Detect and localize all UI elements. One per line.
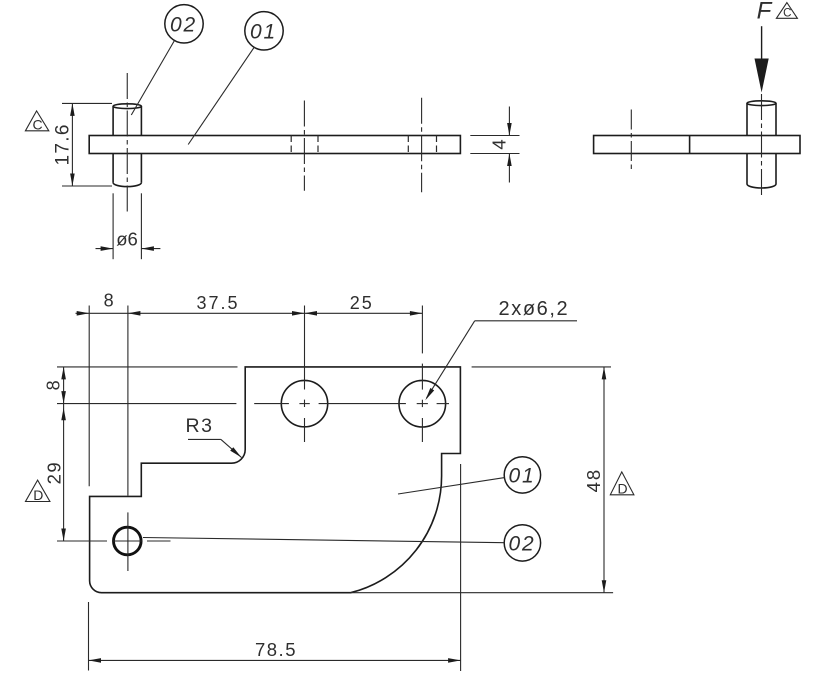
pin centerline (side view) <box>761 94 763 196</box>
dimension diam 6 <box>112 193 114 259</box>
balloon 02 (front view) <box>165 5 203 43</box>
part 02 pin upper body (front view) <box>112 106 114 135</box>
top dimension line 8 / 37.5 / 25 <box>76 312 423 314</box>
left edge extension line <box>88 306 90 487</box>
svg-text:01: 01 <box>509 464 536 487</box>
hidden hole lines right hole (front view) <box>407 136 409 154</box>
svg-text:R3: R3 <box>186 415 214 437</box>
svg-text:F: F <box>757 0 773 25</box>
svg-text:ø6: ø6 <box>116 229 138 250</box>
svg-text:02: 02 <box>509 532 536 555</box>
bottom dimension 78.5 <box>88 602 90 671</box>
leader balloon 02 plan to pin hole <box>143 538 504 543</box>
svg-text:D: D <box>33 487 43 503</box>
hole centerline right (front view) <box>421 98 423 193</box>
svg-text:02: 02 <box>170 14 197 37</box>
leader balloon 01 plan <box>398 478 505 494</box>
svg-text:8: 8 <box>44 380 64 390</box>
hidden hole lines left hole (front view) <box>290 136 292 154</box>
part 02 pin upper body (side view) <box>746 103 748 135</box>
top edge extension line left <box>57 366 238 368</box>
svg-text:C: C <box>32 116 42 132</box>
svg-text:C: C <box>783 8 791 20</box>
hole 2 circle (plan view) <box>399 380 446 427</box>
leader balloon 02 to pin <box>131 41 174 115</box>
hole 1 circle (plan view) <box>281 380 327 426</box>
pin centerline (front view) <box>126 73 128 213</box>
svg-text:25: 25 <box>350 293 374 313</box>
vertical centerline hole 1 / extension <box>304 306 306 390</box>
part 01 plate bar (side view) <box>594 136 800 154</box>
datum triangle D right <box>610 472 634 495</box>
bar centerline (side view) <box>630 110 632 172</box>
svg-text:48: 48 <box>583 468 604 493</box>
svg-text:4: 4 <box>488 139 509 149</box>
edge line in side view bar <box>689 136 691 154</box>
svg-text:78.5: 78.5 <box>255 639 297 660</box>
svg-text:8: 8 <box>104 291 114 311</box>
svg-text:37.5: 37.5 <box>196 293 239 313</box>
right dimension 48 <box>472 366 611 368</box>
horizontal centerline through holes <box>57 403 236 405</box>
part 02 pin lower body (side view) <box>746 154 748 185</box>
datum triangle C at force <box>776 3 797 19</box>
part 02 pin lower body (front view) <box>112 154 114 183</box>
force arrow F <box>761 26 763 62</box>
balloon 01 (front view) <box>245 12 283 50</box>
svg-text:17.6: 17.6 <box>52 123 73 165</box>
part 01 plate outline (plan view) <box>90 367 461 593</box>
pin hole 02 circle thick (plan view) <box>114 527 142 555</box>
left dimension line 8 / 29 <box>63 367 65 541</box>
datum triangle D left <box>26 480 50 501</box>
dimension 17.6 <box>62 102 112 104</box>
hole centerline left (front view) <box>303 101 305 191</box>
vertical centerline pin hole / extension <box>127 306 129 496</box>
horizontal centerline pin hole <box>57 540 107 542</box>
svg-text:D: D <box>617 480 627 496</box>
vertical centerline hole 2 / extension <box>421 306 423 354</box>
part 01 plate bar (front view) <box>89 136 460 154</box>
svg-text:01: 01 <box>250 21 277 44</box>
balloon 01 (plan view) <box>504 457 540 493</box>
svg-text:29: 29 <box>43 461 64 485</box>
balloon 02 (plan view) <box>504 525 540 561</box>
svg-text:2xø6,2: 2xø6,2 <box>499 298 570 320</box>
dimension 4 plate thickness <box>470 135 519 137</box>
leader balloon 01 to plate <box>188 47 254 145</box>
datum triangle C left <box>25 111 48 131</box>
